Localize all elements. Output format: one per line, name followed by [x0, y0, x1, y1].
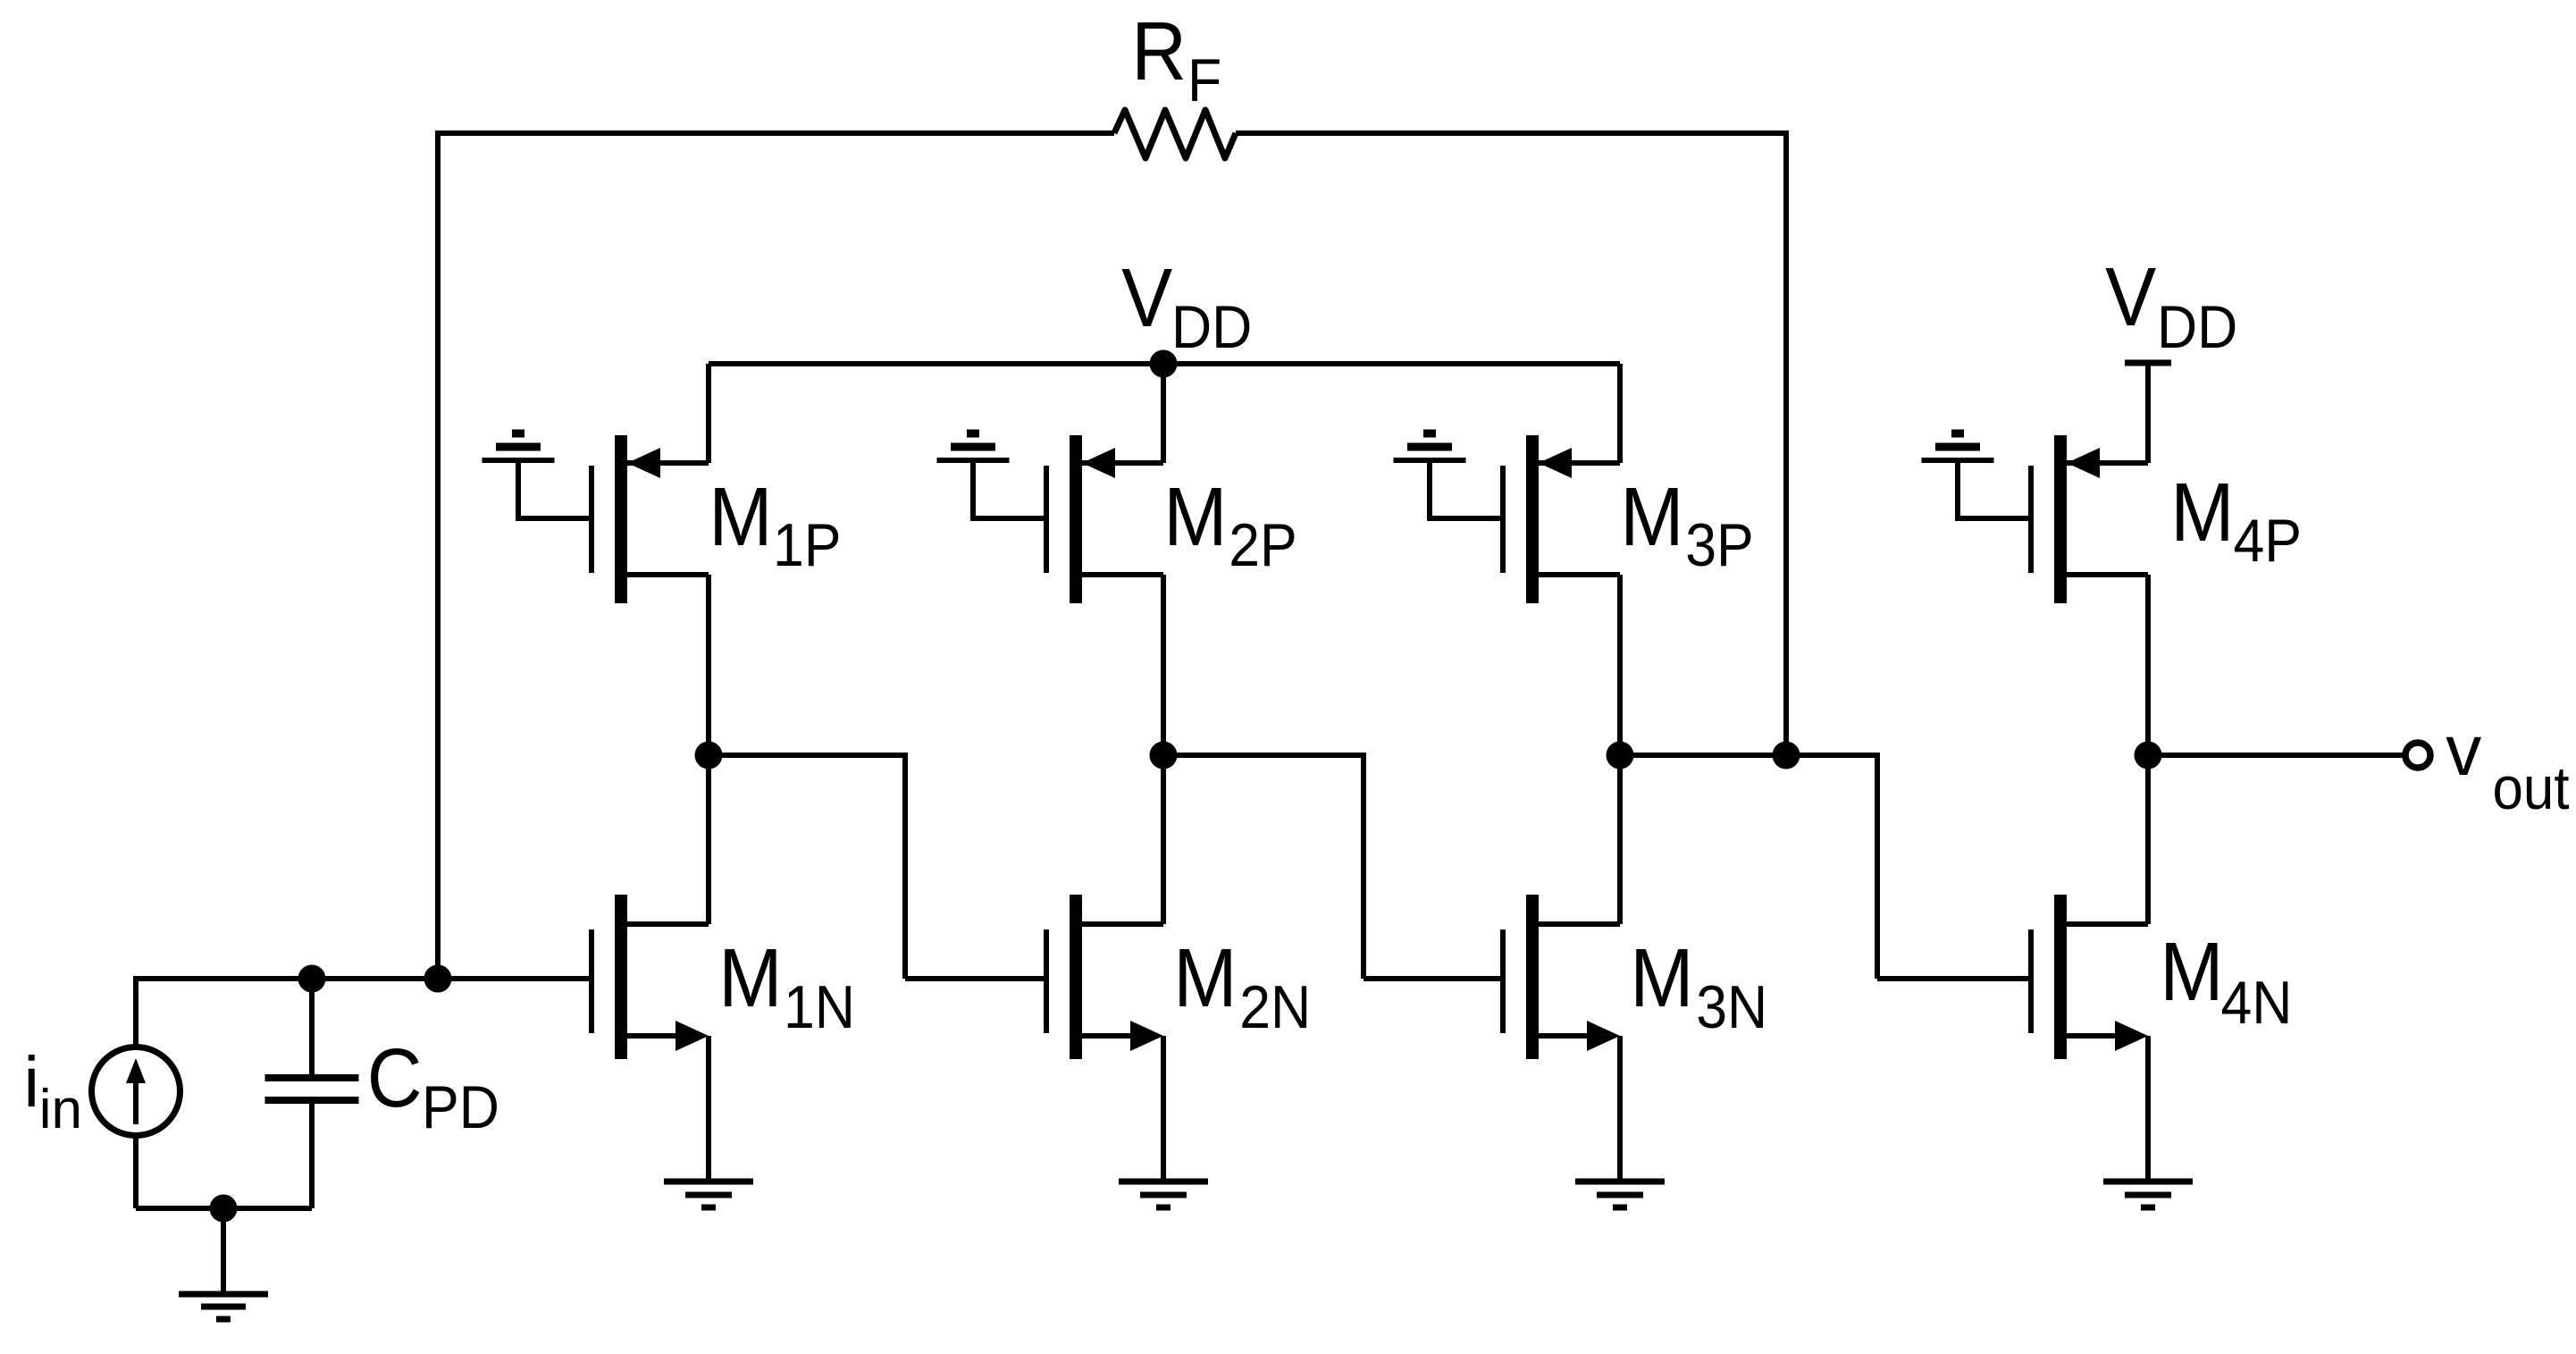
bulk bias symbol (M1P gate)	[482, 433, 555, 521]
svg-text:DD: DD	[1171, 293, 1252, 361]
node: input/feedback junction	[424, 965, 452, 993]
svg-text:M: M	[718, 931, 782, 1024]
svg-text:2N: 2N	[1239, 973, 1311, 1041]
label M1P	[709, 470, 841, 579]
svg-text:v: v	[2446, 711, 2481, 790]
svg-text:M: M	[1173, 931, 1237, 1024]
bulk bias symbol (M2P gate)	[937, 433, 1010, 521]
svg-text:4N: 4N	[2221, 969, 2293, 1037]
node: stage 2 output junction	[1150, 742, 1178, 770]
svg-text:out: out	[2493, 753, 2570, 821]
transistor M1N (NMOS)	[592, 755, 709, 1182]
wire: feedback left vertical (to input node)	[435, 130, 441, 979]
label CPD	[367, 1031, 499, 1141]
transistor M1P (PMOS)	[518, 364, 709, 755]
svg-text:M: M	[709, 470, 772, 563]
label M3N	[1630, 931, 1767, 1041]
label M4P	[2170, 466, 2302, 575]
wire: stage 2 output to stage 3 gate	[1163, 753, 1503, 979]
current source iin	[92, 976, 180, 1208]
transistor M3N (NMOS)	[1503, 755, 1620, 1182]
svg-text:M: M	[2160, 925, 2223, 1018]
capacitor CPD	[265, 979, 359, 1208]
resistor RF	[1114, 110, 1236, 158]
svg-text:DD: DD	[2157, 293, 2237, 361]
svg-text:R: R	[1131, 4, 1187, 97]
label vout	[2446, 711, 2569, 822]
wire: stage 1 output to stage 2 gate	[709, 753, 1046, 979]
node: stage 1 output junction	[695, 742, 723, 770]
net VDD rail (stages 1-3)	[709, 361, 1620, 366]
bulk bias symbol (M4P gate)	[1922, 433, 1994, 521]
wire: feedback right vertical (to output node)	[1783, 130, 1789, 755]
node: capacitor top junction	[298, 965, 326, 993]
svg-text:i: i	[23, 1042, 39, 1122]
label iin	[23, 1042, 82, 1140]
bulk bias symbol (M3P gate)	[1394, 433, 1466, 521]
power VDD terminal (M4P)	[2125, 363, 2171, 463]
wire: feedback top left segment	[438, 130, 1114, 136]
transistor M2N (NMOS)	[1046, 755, 1163, 1182]
ground (M1N source)	[664, 1182, 753, 1207]
node: bottom ground junction	[210, 1195, 238, 1223]
label RF	[1131, 4, 1221, 114]
node: stage 3 output junction	[1607, 742, 1634, 770]
node: feedback junction on output net	[1773, 742, 1800, 770]
svg-text:2P: 2P	[1229, 511, 1297, 579]
label VDD (rail)	[1121, 251, 1252, 361]
svg-text:1N: 1N	[784, 973, 855, 1041]
svg-text:M: M	[2170, 466, 2234, 559]
transistor M4N (NMOS)	[2031, 755, 2148, 1182]
label M2N	[1173, 931, 1311, 1041]
svg-text:in: in	[39, 1079, 82, 1140]
svg-text:3P: 3P	[1685, 511, 1754, 579]
svg-text:1P: 1P	[773, 511, 842, 579]
wire: feedback top right segment	[1236, 130, 1786, 136]
transistor M2P (PMOS)	[973, 364, 1163, 755]
label M4N	[2160, 925, 2292, 1037]
transistor M4P (PMOS)	[1958, 435, 2148, 755]
wire: stage 3 output to stage 4 gate	[1620, 753, 2031, 979]
svg-text:4P: 4P	[2234, 507, 2303, 575]
label M2P	[1163, 470, 1297, 579]
svg-text:M: M	[1630, 931, 1693, 1024]
ground (M2N source)	[1119, 1182, 1208, 1207]
ground (M4N source)	[2103, 1182, 2193, 1207]
label M3P	[1620, 470, 1754, 579]
node: VDD rail junction dot	[1150, 350, 1178, 378]
label M1N	[718, 931, 855, 1041]
svg-text:PD: PD	[422, 1073, 499, 1141]
wire: input bottom rail	[136, 1206, 312, 1211]
svg-text:F: F	[1187, 46, 1221, 114]
node: stage 4 output junction	[2135, 742, 2162, 770]
ground (input network)	[179, 1208, 268, 1319]
svg-text:M: M	[1163, 470, 1227, 563]
svg-text:M: M	[1620, 470, 1683, 563]
svg-text:V: V	[1121, 251, 1172, 344]
svg-text:3N: 3N	[1696, 973, 1767, 1041]
ground (M3N source)	[1575, 1182, 1665, 1207]
svg-text:C: C	[367, 1031, 423, 1124]
label VDD (M4P)	[2105, 250, 2237, 361]
transistor M3P (PMOS)	[1430, 364, 1620, 755]
terminal vout (open circle)	[2405, 743, 2430, 768]
wire: output to terminal	[2148, 753, 2404, 758]
svg-text:V: V	[2105, 250, 2156, 343]
wire: input node rail	[136, 976, 592, 981]
